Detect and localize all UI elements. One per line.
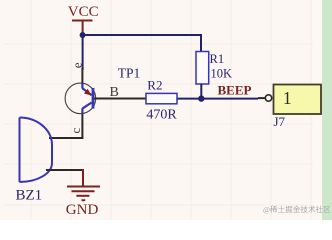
junction dot at VCC node [80,32,86,38]
wire VCC junction to emitter [82,35,84,70]
resistor R2 [146,93,177,103]
svg-text:e: e [70,62,85,68]
wire top horizontal to R1 [83,34,202,36]
svg-text:BZ1: BZ1 [16,188,43,204]
wire down into R1 [200,34,202,52]
svg-text:J7: J7 [274,114,286,129]
svg-text:470R: 470R [146,108,177,123]
wire BEEP horizontal to connector [177,98,258,100]
power symbol VCC [72,21,93,36]
transistor TP1 [65,83,96,114]
svg-text:TP1: TP1 [118,66,141,81]
base pin wire [94,98,146,100]
junction dot at BEEP node [198,95,204,101]
emitter pin wire [81,68,83,84]
svg-text:R1: R1 [210,52,225,66]
emitter arrow (PNP) [84,89,91,96]
resistor R1 [196,52,209,85]
svg-text:GND: GND [66,202,99,218]
svg-text:10K: 10K [211,67,233,81]
svg-text:R2: R2 [147,78,162,93]
svg-text:1: 1 [283,88,292,108]
collector pin wire [81,114,83,139]
svg-text:c: c [68,127,83,133]
svg-text:VCC: VCC [68,4,99,20]
pin of connector J7 [258,97,265,99]
wire R1 bottom to BEEP node [200,84,202,99]
ground GND [67,169,100,200]
svg-text:BEEP: BEEP [218,82,252,97]
wire collector to buzzer [49,137,83,139]
wire buzzer to GND [46,169,84,171]
buzzer BZ1 [20,118,53,183]
connector J7 [274,85,322,115]
svg-text:@稀土掘金技术社区: @稀土掘金技术社区 [263,204,331,214]
